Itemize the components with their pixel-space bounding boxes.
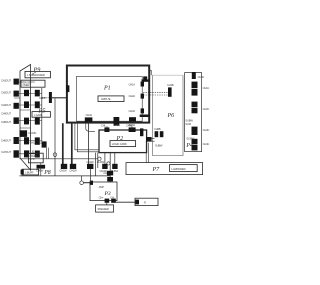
box crossover bbox=[21, 80, 45, 87]
svg-text:CH4C: CH4C bbox=[203, 142, 210, 146]
P4 right labels bbox=[203, 86, 210, 146]
svg-text:L BUFF: L BUFF bbox=[29, 154, 38, 158]
pin on P1 left edge bbox=[66, 85, 69, 92]
pin on R bbox=[135, 200, 139, 205]
output block P4 column bbox=[185, 73, 202, 152]
svg-text:CHM: CHM bbox=[126, 124, 132, 128]
pin below P10 bbox=[37, 165, 46, 169]
node circle on bus bbox=[53, 153, 57, 157]
svg-text:CH1OUT: CH1OUT bbox=[1, 79, 11, 83]
svg-text:CH2A: CH2A bbox=[129, 94, 136, 98]
box L amplifier bbox=[170, 165, 198, 172]
svg-text:CH5OUT: CH5OUT bbox=[1, 120, 11, 124]
svg-text:CH2OUT: CH2OUT bbox=[1, 91, 11, 95]
pin E bbox=[42, 141, 47, 147]
P4 pin bank 3 bbox=[192, 127, 198, 135]
box buffer section P10 bbox=[28, 153, 43, 163]
speaker-out pin row bbox=[61, 164, 118, 169]
pin row labels below bbox=[59, 169, 118, 173]
svg-text:OVER: OVER bbox=[23, 83, 30, 87]
P1 bottom pin c bbox=[129, 117, 137, 127]
svg-text:CH1W: CH1W bbox=[59, 169, 67, 173]
box logic card bbox=[110, 141, 136, 147]
P1 right pin 3 bbox=[129, 108, 145, 113]
svg-text:CH1A: CH1A bbox=[129, 83, 136, 87]
P6 lower left pins bbox=[154, 127, 163, 137]
svg-text:L GAIN: L GAIN bbox=[34, 113, 42, 117]
node circle 2 bbox=[107, 162, 110, 165]
svg-text:P7: P7 bbox=[152, 167, 161, 173]
amplifier block P1 outer bbox=[67, 66, 149, 123]
wire curve to P2 top bbox=[86, 123, 95, 131]
wire thick vertical to pin row 2 bbox=[71, 123, 73, 164]
svg-text:AMP: AMP bbox=[99, 185, 105, 189]
wire bend pair into P2 left bbox=[75, 123, 99, 152]
P6 top pin bbox=[167, 83, 174, 97]
P3 bottom pins bbox=[105, 199, 110, 203]
svg-text:CH3C: CH3C bbox=[203, 128, 210, 132]
svg-text:SCMW: SCMW bbox=[186, 137, 194, 141]
svg-text:CH8O: CH8O bbox=[39, 96, 46, 100]
svg-text:CHL: CHL bbox=[101, 124, 106, 128]
wire bbox=[42, 97, 49, 99]
wire bbox=[14, 98, 31, 128]
box ampl bbox=[98, 96, 124, 102]
P1 bottom pin a bbox=[85, 113, 93, 122]
svg-text:CH6OUT: CH6OUT bbox=[1, 139, 11, 143]
P1 right pin 1 bbox=[129, 82, 145, 87]
wire to resistor bbox=[114, 201, 136, 203]
P2 top pin 3 bbox=[140, 128, 143, 136]
pin column C bbox=[35, 90, 40, 158]
left connector housing J1 bbox=[20, 65, 31, 171]
wire dashed into P6 bbox=[143, 92, 168, 95]
svg-text:SPEAKER: SPEAKER bbox=[97, 207, 109, 211]
amplifier strip P7 bbox=[126, 163, 203, 175]
pin column B bbox=[24, 90, 29, 158]
pin row labels left bbox=[1, 79, 11, 155]
svg-text:CH2C: CH2C bbox=[203, 107, 210, 111]
svg-text:CH8B: CH8B bbox=[154, 127, 161, 131]
svg-text:CH3OUT: CH3OUT bbox=[1, 103, 11, 107]
svg-text:AMPL SL: AMPL SL bbox=[101, 97, 112, 101]
svg-text:CH4A: CH4A bbox=[86, 113, 93, 117]
svg-text:R: R bbox=[144, 201, 146, 205]
pin at P1 corner bbox=[143, 76, 147, 81]
pin column A bbox=[14, 79, 19, 158]
wire to speaker bbox=[106, 203, 108, 205]
P4 pin bank 4 bbox=[192, 139, 198, 151]
wire long horizontal upper bbox=[20, 158, 98, 160]
pin above P3 bbox=[103, 171, 113, 182]
svg-text:CH+: CH+ bbox=[99, 195, 104, 199]
svg-text:CH3A: CH3A bbox=[129, 109, 136, 113]
svg-text:P1: P1 bbox=[103, 86, 111, 92]
P1 right pin 2 bbox=[129, 94, 145, 99]
box S buffer bbox=[22, 169, 39, 175]
wire vertical pin a to pin row 3 bbox=[87, 122, 89, 165]
svg-text:CH5A: CH5A bbox=[114, 123, 121, 127]
pin row labels above bbox=[86, 160, 104, 164]
box speaker bbox=[96, 205, 114, 212]
svg-text:L AMPLIFIER: L AMPLIFIER bbox=[171, 167, 185, 171]
wire thick vertical to pin row 1 bbox=[62, 123, 64, 164]
P4 pin bank 1 bbox=[192, 82, 198, 96]
wire stub P1 to P6 low bbox=[140, 115, 150, 118]
wire drops from pin E bbox=[46, 148, 48, 159]
P4 top pin bbox=[192, 72, 196, 79]
wire bbox=[52, 97, 67, 99]
pin on P3 left edge bbox=[90, 181, 93, 185]
wire P1 top right stub down bbox=[149, 70, 151, 75]
wire from P2 to P6 bbox=[147, 139, 155, 142]
P2 top pin 1 bbox=[101, 124, 109, 132]
P2 right pin bbox=[146, 137, 152, 142]
P2 top pin 2 bbox=[126, 124, 136, 132]
wire P10 down bbox=[40, 163, 42, 176]
P1 bottom pin b bbox=[114, 117, 121, 127]
wire long horizontal lower bbox=[20, 175, 111, 177]
svg-text:CH4OUT: CH4OUT bbox=[1, 112, 11, 116]
box gain bbox=[32, 112, 50, 118]
amplifier block P3 bbox=[90, 182, 117, 201]
wire pin row to P3 corner bbox=[90, 169, 92, 182]
wire into P3 left with node bbox=[81, 176, 83, 181]
svg-text:P4: P4 bbox=[185, 142, 193, 149]
pin on S buffer bbox=[21, 170, 24, 175]
svg-text:P6: P6 bbox=[167, 113, 175, 119]
svg-text:CH4W: CH4W bbox=[97, 160, 105, 164]
pin col B extra top bbox=[20, 130, 28, 137]
svg-text:CH10N: CH10N bbox=[28, 131, 36, 135]
svg-text:P9: P9 bbox=[33, 67, 41, 74]
node circle bbox=[98, 157, 101, 160]
svg-text:P8: P8 bbox=[43, 170, 51, 176]
amplifier block P1 inner bbox=[77, 76, 143, 121]
svg-text:SUBW: SUBW bbox=[155, 143, 163, 147]
svg-text:SYS: SYS bbox=[29, 157, 34, 161]
wire vertical from pinD junction bbox=[54, 99, 56, 176]
svg-text:CH2W: CH2W bbox=[69, 169, 77, 173]
node circle 3 bbox=[80, 181, 84, 185]
wire circle to P3 bbox=[83, 182, 90, 184]
wire stubs above P2 pins bbox=[107, 126, 132, 130]
svg-text:L BUFR: L BUFR bbox=[25, 170, 34, 174]
wire drops to P7 bbox=[146, 141, 148, 162]
wire arrow of P9 bbox=[32, 72, 37, 75]
crossover block P6 bbox=[153, 74, 183, 76]
pin D bbox=[49, 92, 52, 103]
svg-text:CH1B: CH1B bbox=[167, 83, 174, 87]
resistor box R bbox=[135, 198, 158, 205]
bus line vertical bbox=[41, 88, 43, 141]
logic block P2 bbox=[99, 130, 147, 153]
svg-text:CH7OUT: CH7OUT bbox=[1, 150, 11, 154]
P4 pin bank 2 bbox=[192, 102, 198, 114]
svg-text:LOGIC CARD: LOGIC CARD bbox=[112, 142, 127, 146]
box subwoofer label bbox=[25, 71, 50, 77]
wire bbox=[19, 82, 42, 154]
svg-text:CH1C: CH1C bbox=[203, 86, 210, 90]
svg-text:CH5C: CH5C bbox=[198, 75, 205, 79]
label subw sum bbox=[185, 119, 193, 126]
svg-text:L SUBWOOFER: L SUBWOOFER bbox=[27, 73, 45, 77]
wire P2 bottom drops bbox=[95, 153, 114, 182]
wire stub P1 to P6 top bbox=[142, 79, 150, 81]
svg-text:CH3W: CH3W bbox=[86, 160, 94, 164]
